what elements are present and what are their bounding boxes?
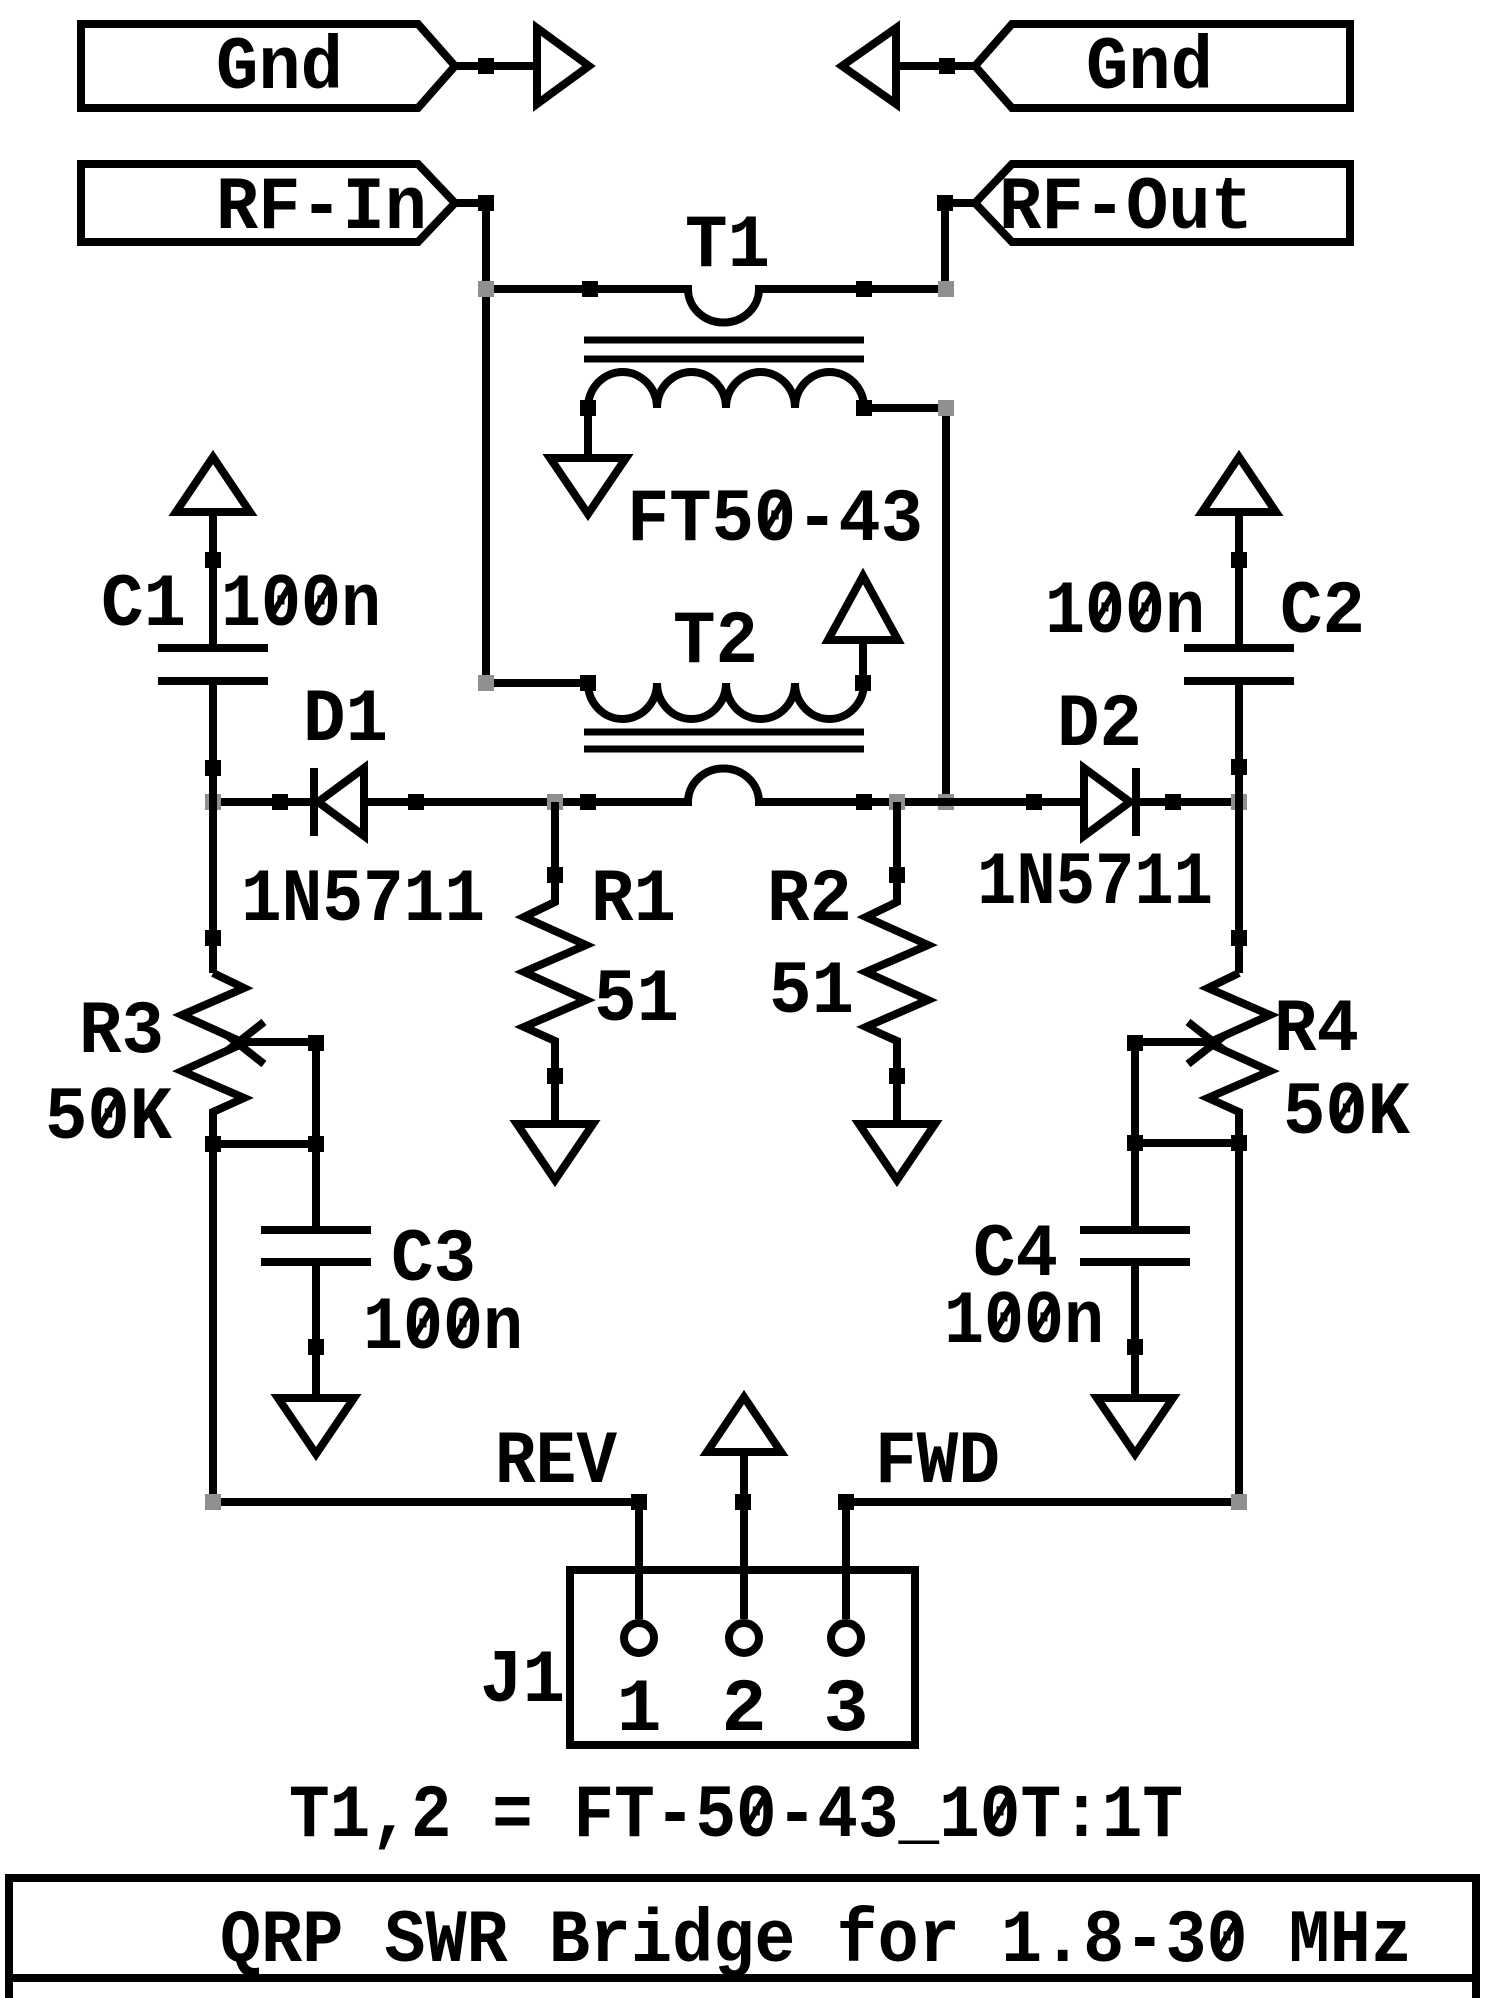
svg-text:50K: 50K: [45, 1076, 172, 1161]
svg-text:2: 2: [721, 1668, 766, 1753]
bus wire with T2 primary bump: [213, 769, 1239, 802]
pin circle 3: [831, 1623, 861, 1653]
wire jumper C4 to R4: [1135, 1139, 1239, 1147]
junction dot: [937, 195, 953, 211]
junction dot: [889, 867, 905, 883]
node (gray) bus right end: [1231, 794, 1247, 810]
junction dot: [1127, 1135, 1143, 1151]
port flag RF-In: [81, 164, 455, 251]
junction dot: [308, 1136, 324, 1152]
wire left vertical to T2: [486, 679, 588, 687]
svg-text:Gnd: Gnd: [216, 26, 343, 111]
junction dot: [855, 675, 871, 691]
junction dot: [580, 400, 596, 416]
junction dot: [1231, 552, 1247, 568]
ground arrow (down) below C3: [278, 1398, 354, 1454]
svg-text:RF-In: RF-In: [216, 166, 427, 251]
junction dot: [1231, 759, 1247, 775]
svg-text:1N5711: 1N5711: [977, 841, 1213, 926]
wire R3 wiper down: [312, 1043, 320, 1230]
wire J1 pin2: [740, 1452, 748, 1619]
slashed zeros: [273, 587, 289, 613]
transformer T2 secondary (10 turns): [588, 683, 864, 719]
svg-text:R1: R1: [591, 858, 676, 943]
svg-text:R3: R3: [79, 990, 164, 1075]
svg-text:R2: R2: [767, 858, 852, 943]
ground arrow (up) above J1 pin2: [707, 1397, 781, 1452]
junction dot: [1127, 1035, 1143, 1051]
ground arrow (down) below C4: [1097, 1398, 1173, 1454]
diode D1 (1N5711): [314, 768, 364, 836]
capacitor C1: [158, 512, 268, 973]
junction dot: [547, 1068, 563, 1084]
junction dot: [580, 675, 596, 691]
port flag Gnd (top-right): [975, 24, 1350, 111]
junction dot: [939, 58, 955, 74]
port flag Gnd (top-left): [81, 24, 455, 111]
node (gray) RF-Out/T1: [938, 281, 954, 297]
svg-text:C1: C1: [101, 563, 186, 648]
node (gray) R1 tap: [547, 794, 563, 810]
transformer T1 secondary (10 turns): [588, 372, 864, 408]
connector J1 box: [570, 1570, 915, 1745]
ground arrow (up) above C1: [176, 457, 250, 512]
wire: [896, 62, 975, 70]
capacitor C3: [261, 1230, 371, 1398]
wire FWD rail: [846, 1498, 1239, 1506]
svg-text:3: 3: [823, 1668, 868, 1753]
junction dot: [889, 1068, 905, 1084]
potentiometer R3 50K: [182, 973, 316, 1502]
svg-text:C2: C2: [1280, 570, 1365, 655]
pin circle 2: [729, 1623, 759, 1653]
junction dot: [308, 1339, 324, 1355]
wire RF-In to T1: [455, 203, 486, 683]
wire REV rail: [213, 1498, 639, 1506]
junction dot: [1127, 1339, 1143, 1355]
svg-text:100n: 100n: [363, 1286, 523, 1371]
svg-text:QRP SWR Bridge for 1.8-30 MHz: QRP SWR Bridge for 1.8-30 MHz: [220, 1899, 1412, 1984]
arrow symbol (left): [842, 28, 896, 104]
wire RF-Out to T1: [945, 203, 975, 289]
svg-text:T1: T1: [685, 204, 770, 289]
junction dot: [631, 1494, 647, 1510]
wire T1 secondary right down to bus: [864, 408, 946, 802]
potentiometer R4 50K: [1135, 973, 1270, 1502]
ground arrow (up) above C2: [1202, 457, 1276, 512]
svg-text:100n: 100n: [1045, 570, 1205, 655]
svg-text:1: 1: [616, 1668, 661, 1753]
junction dot: [1231, 1135, 1247, 1151]
wire R4 wiper down: [1131, 1043, 1139, 1230]
svg-text:FWD: FWD: [875, 1420, 1000, 1505]
junction dot: [856, 281, 872, 297]
capacitor C4: [1080, 1230, 1190, 1398]
junction dot: [478, 58, 494, 74]
svg-text:T2: T2: [673, 600, 758, 685]
svg-text:51: 51: [769, 950, 854, 1035]
svg-text:51: 51: [594, 958, 679, 1043]
ground arrow (down) below R1: [517, 1124, 593, 1180]
svg-text:50K: 50K: [1283, 1071, 1410, 1156]
svg-text:RF-Out: RF-Out: [999, 166, 1253, 251]
transformer T1 primary (1 turn): [486, 289, 946, 322]
svg-text:T1,2 = FT-50-43_10T:1T: T1,2 = FT-50-43_10T:1T: [289, 1774, 1183, 1859]
node (gray) RF-In/T1: [478, 281, 494, 297]
node (gray): [938, 400, 954, 416]
title block frame: [9, 1878, 1476, 1998]
svg-text:100n: 100n: [944, 1280, 1104, 1365]
port flag RF-Out: [975, 164, 1350, 251]
wire jumper R3 to C3: [213, 1140, 316, 1148]
transformer T2 core: [584, 732, 864, 749]
pin circle 1: [624, 1623, 654, 1653]
svg-text:REV: REV: [495, 1420, 617, 1505]
capacitor C2: [1184, 512, 1294, 973]
node (gray) bus left end: [205, 794, 221, 810]
junction dot: [582, 281, 598, 297]
arrow symbol (right): [537, 28, 589, 104]
junction dot: [856, 400, 872, 416]
node (gray) R2 tap: [889, 794, 905, 810]
node (gray) R4 rail corner: [1231, 1494, 1247, 1510]
ground arrow (down): [550, 458, 626, 514]
node (gray) R3 rail corner: [205, 1494, 221, 1510]
wire J1 pin3: [842, 1502, 850, 1619]
junction dot: [205, 930, 221, 946]
transformer T1 core: [584, 340, 864, 359]
svg-text:R4: R4: [1274, 988, 1359, 1073]
wire T1 secondary left to ground: [584, 408, 592, 458]
svg-text:D1: D1: [303, 678, 388, 763]
junction dot: [478, 195, 494, 211]
arrow symbol (up) T2 right terminal: [828, 576, 898, 640]
junction dot: [838, 1494, 854, 1510]
wire T2 right terminal: [859, 638, 867, 683]
junction dot: [205, 552, 221, 568]
wire: [455, 62, 537, 70]
junction dot: [1231, 930, 1247, 946]
junction dot: [735, 1494, 751, 1510]
junction dot: [205, 760, 221, 776]
resistor R2 51: [866, 802, 928, 1124]
resistor R1 51: [524, 802, 586, 1124]
svg-text:1N5711: 1N5711: [241, 858, 485, 943]
junction dot: [308, 1035, 324, 1051]
diode D2 (1N5711): [1084, 768, 1136, 836]
svg-text:J1: J1: [480, 1639, 565, 1724]
svg-text:100n: 100n: [221, 563, 381, 648]
ground arrow (down) below R2: [859, 1124, 935, 1180]
bus junction dots: [272, 794, 288, 810]
node (gray): [938, 794, 954, 810]
junction dot: [547, 867, 563, 883]
svg-text:D2: D2: [1057, 683, 1142, 768]
wire J1 pin1: [635, 1502, 643, 1619]
node (gray): [478, 675, 494, 691]
svg-text:Gnd: Gnd: [1086, 26, 1213, 111]
junction dot: [205, 1136, 221, 1152]
